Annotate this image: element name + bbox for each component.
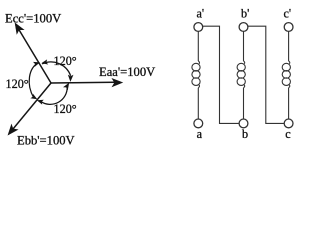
svg-text:Ecc'=100V: Ecc'=100V bbox=[5, 12, 61, 26]
svg-text:c: c bbox=[285, 127, 291, 141]
terminal b' bbox=[239, 23, 248, 32]
coil C (winding c'-c) bbox=[282, 61, 290, 88]
phasor Eaa' (arrow right) bbox=[51, 78, 123, 86]
angle arc Ecc'-Eaa' (top, 120 deg) bbox=[41, 59, 74, 82]
svg-text:120°: 120° bbox=[54, 102, 77, 116]
terminal a bbox=[194, 119, 203, 128]
phasor Ebb' (arrow down-left) bbox=[5, 83, 51, 138]
svg-text:a: a bbox=[197, 127, 203, 141]
svg-text:c': c' bbox=[284, 6, 292, 20]
svg-text:Ebb'=100V: Ebb'=100V bbox=[17, 133, 75, 147]
phasor Ecc' (arrow up-left) bbox=[11, 21, 51, 83]
angle arc Ecc'-Ebb' (left, 120 deg) bbox=[29, 60, 41, 102]
wire coil C to c bbox=[288, 88, 290, 119]
wire b' to coil B bbox=[243, 31, 245, 61]
svg-text:b: b bbox=[242, 127, 248, 141]
node O (phasor origin) bbox=[0, 0, 1, 1]
jumper wire b' to c bbox=[248, 26, 284, 123]
coil A (winding a'-a) bbox=[192, 61, 200, 88]
terminal b bbox=[239, 119, 248, 128]
wire a' to coil A bbox=[197, 31, 199, 61]
wire c' to coil C bbox=[288, 31, 290, 61]
svg-text:a': a' bbox=[197, 6, 205, 20]
svg-text:120°: 120° bbox=[54, 54, 77, 68]
wire coil B to b bbox=[243, 88, 245, 119]
coil B (winding b'-b) bbox=[237, 61, 245, 88]
jumper wire a' to b bbox=[203, 26, 239, 123]
svg-text:120°: 120° bbox=[6, 77, 29, 91]
angle arc Ebb'-Eaa' (bottom, 120 deg) bbox=[36, 81, 72, 105]
terminal c bbox=[284, 119, 293, 128]
terminal c' bbox=[284, 23, 293, 32]
wire coil A to a bbox=[197, 88, 199, 119]
svg-text:Eaa'=100V: Eaa'=100V bbox=[99, 65, 155, 79]
svg-text:b': b' bbox=[241, 6, 249, 20]
terminal a' bbox=[194, 23, 203, 32]
